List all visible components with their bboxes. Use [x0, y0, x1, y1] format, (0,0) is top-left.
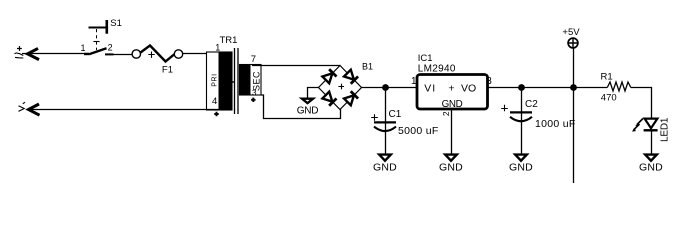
fuse F1	[132, 46, 183, 76]
light arrows	[637, 119, 643, 125]
svg-text:C2: C2	[525, 99, 538, 110]
svg-text:R1: R1	[601, 71, 613, 82]
ground C2	[509, 155, 533, 174]
svg-text:PRI: PRI	[212, 73, 219, 86]
diode D upper-right	[344, 69, 358, 83]
capacitor C2	[501, 88, 575, 154]
wire fuse to TR1	[183, 53, 219, 55]
junction C1	[382, 84, 389, 91]
switch S1	[81, 18, 122, 54]
wire LED to ground	[651, 131, 653, 154]
transformer TR1	[207, 35, 262, 116]
junction +5V	[570, 84, 577, 91]
svg-text:IC1: IC1	[418, 53, 433, 64]
svg-text:GND: GND	[442, 99, 463, 110]
svg-text:GND: GND	[509, 162, 533, 174]
svg-text:TR1: TR1	[220, 35, 238, 46]
ground LED	[639, 155, 663, 174]
wire down from +5V junction	[573, 88, 575, 184]
svg-text:LM2940: LM2940	[418, 64, 456, 75]
wire sec bottom to bridge	[261, 95, 341, 119]
ground at bridge	[297, 88, 319, 117]
ground IC1	[439, 155, 463, 174]
svg-text:B1: B1	[362, 62, 373, 72]
resistor R1	[601, 71, 631, 103]
svg-text:GND: GND	[373, 162, 397, 174]
svg-text:GND: GND	[439, 162, 463, 174]
ground C1	[373, 155, 397, 174]
svg-text:1: 1	[81, 43, 86, 53]
svg-text:3: 3	[252, 89, 257, 98]
connector X1 V+ input	[15, 46, 40, 60]
wire bridge to IC1	[362, 87, 418, 89]
IC1 LM2940 regulator	[411, 53, 492, 154]
svg-text:4: 4	[212, 96, 217, 107]
svg-text:+5V: +5V	[562, 27, 580, 38]
wire switch to fuse	[114, 54, 133, 56]
capacitor C1	[371, 88, 438, 154]
connector X2 V- input	[19, 102, 40, 115]
svg-text:2: 2	[441, 111, 451, 116]
bridge rectifier B1	[319, 62, 374, 110]
svg-text:+: +	[448, 83, 454, 95]
wire IC1 to R1	[488, 87, 608, 89]
svg-text:1000 uF: 1000 uF	[535, 118, 576, 130]
svg-text:5000 uF: 5000 uF	[398, 125, 439, 137]
supply +5V	[562, 27, 580, 88]
wire bottom AC	[29, 109, 219, 111]
diode D lower-right	[344, 91, 358, 105]
svg-text:LED1: LED1	[659, 117, 670, 142]
svg-text:GND: GND	[639, 162, 663, 174]
wire sec top to bridge	[252, 65, 341, 67]
svg-text:7: 7	[251, 54, 256, 65]
junction C2	[518, 84, 525, 91]
svg-text:C1: C1	[389, 109, 402, 120]
svg-text:1: 1	[215, 43, 220, 53]
diode D lower-left	[322, 91, 336, 105]
svg-text:470: 470	[601, 93, 617, 104]
svg-text:S1: S1	[110, 18, 122, 29]
wire R1 to LED	[631, 88, 652, 120]
svg-text:3: 3	[486, 76, 492, 87]
svg-text:2: 2	[108, 42, 113, 52]
wire top AC	[28, 53, 90, 55]
svg-text:VO: VO	[461, 83, 476, 95]
svg-text:F1: F1	[162, 65, 173, 76]
svg-text:1: 1	[411, 76, 417, 87]
svg-text:GND: GND	[297, 106, 319, 117]
diode D upper-left	[322, 69, 336, 83]
LED LED1	[632, 117, 671, 142]
svg-text:VI: VI	[424, 83, 436, 95]
